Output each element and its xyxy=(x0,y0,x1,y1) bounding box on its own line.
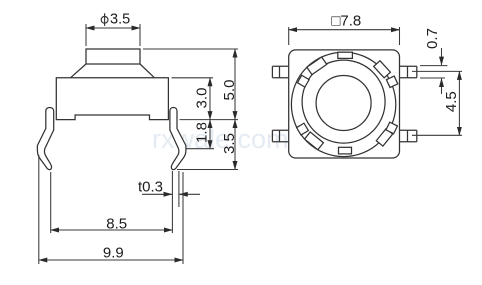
top view: cover outer circle xyxy=(291,52,395,156)
extension lines 8.5 xyxy=(51,172,173,233)
svg-text:3.5: 3.5 xyxy=(110,11,130,27)
extension lines dimension dia3.5 xyxy=(86,24,140,46)
extension lines 4.5 (pin pitch) xyxy=(412,71,462,135)
top view: square body outline xyxy=(289,50,400,158)
extension line base bottom xyxy=(180,119,239,121)
top view: corner crimp tabs xyxy=(297,57,398,150)
dimension line 1.8 xyxy=(209,120,211,149)
top view: upper-left pin xyxy=(272,66,288,78)
dimension line 9.9 xyxy=(39,259,183,261)
svg-text:0.7: 0.7 xyxy=(424,28,441,49)
extension lines t0.3 xyxy=(172,171,179,207)
side view: left lead (J-bend) xyxy=(37,107,53,169)
top view: lower-left pin xyxy=(272,130,288,142)
top view: top index notch xyxy=(338,52,353,58)
svg-text:1.8: 1.8 xyxy=(194,122,211,143)
diameter symbol of dimension 3.5 xyxy=(101,16,108,23)
top view: lower-right pin xyxy=(400,130,417,142)
extension line lead shoulder xyxy=(186,148,214,150)
extension lines 0.7 (pin width) xyxy=(420,66,448,78)
dimension line dia3.5 xyxy=(86,27,140,29)
side view: stem skirt trapezoid xyxy=(71,64,155,78)
svg-text:4.5: 4.5 xyxy=(443,91,460,112)
svg-text:8.5: 8.5 xyxy=(106,216,127,233)
svg-text:3.5: 3.5 xyxy=(221,133,238,154)
svg-text:□7.8: □7.8 xyxy=(331,12,361,29)
top view: button inner circle xyxy=(316,76,371,131)
dimension line 4.5 xyxy=(458,71,460,135)
dimension line 3.0 xyxy=(209,78,211,120)
top view: cover middle circle xyxy=(302,60,385,143)
extension line stem top xyxy=(143,48,238,50)
side view: switch body with base feet xyxy=(56,78,168,120)
dimension line 7.8 xyxy=(289,29,400,31)
extension lines 9.9 xyxy=(39,155,183,264)
svg-text:5.0: 5.0 xyxy=(221,80,238,101)
svg-text:9.9: 9.9 xyxy=(103,244,124,261)
extension line body top xyxy=(172,77,214,79)
dimension line 5.0 xyxy=(234,49,236,120)
dimension line 3.5 xyxy=(234,120,236,170)
dimension arrows t0.3 xyxy=(142,193,172,195)
side view: right lead (J-bend) xyxy=(170,107,186,169)
extension line lead tip xyxy=(177,169,238,171)
dimension arrows 0.7 xyxy=(441,48,443,65)
top view: bottom index notch xyxy=(339,147,352,154)
dimension line 8.5 xyxy=(51,229,173,231)
svg-text:3.0: 3.0 xyxy=(194,88,211,109)
svg-text:t0.3: t0.3 xyxy=(138,179,163,196)
top view: upper-right pin xyxy=(400,66,417,78)
watermark xyxy=(152,124,306,155)
extension lines 7.8 xyxy=(289,27,400,45)
side view: button stem xyxy=(86,49,140,64)
